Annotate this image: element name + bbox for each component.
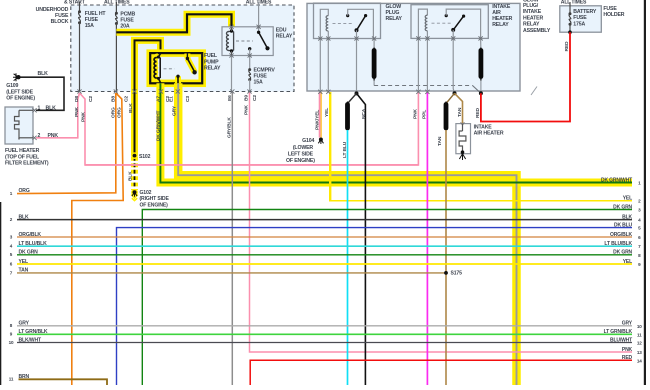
junction dot RED xyxy=(479,91,483,95)
svg-text:BLK: BLK xyxy=(19,214,29,220)
underhood fuse block (dashed box) xyxy=(71,5,294,92)
intake relay coil-switch dashed link xyxy=(432,22,452,24)
wire YEL to right row 2 xyxy=(329,200,632,202)
svg-text:OF ENGINE): OF ENGINE) xyxy=(140,202,169,208)
fuse PCMB 20A xyxy=(115,12,118,15)
wire GRY fuel pump relay output xyxy=(178,83,516,385)
svg-text:(LOWER: (LOWER xyxy=(293,145,314,151)
fusible link (TAN) xyxy=(444,105,449,129)
svg-text:C3: C3 xyxy=(185,96,191,102)
svg-text:GRY: GRY xyxy=(622,321,633,327)
intake relay coil circuit xyxy=(418,9,427,38)
wire BLK fuel heater pin1 to G109 xyxy=(21,77,65,110)
glow plug relay box xyxy=(314,3,381,38)
svg-text:GLOW: GLOW xyxy=(386,4,402,10)
svg-text:HOLDER: HOLDER xyxy=(603,12,624,18)
svg-text:ORG: ORG xyxy=(116,107,122,118)
wire TAN down to S175 and beyond xyxy=(445,130,447,385)
svg-text:DK GRN/WHT: DK GRN/WHT xyxy=(155,111,161,141)
svg-text:OF ENGINE): OF ENGINE) xyxy=(286,158,315,164)
svg-text:D8: D8 xyxy=(74,96,80,102)
wire fuel pump relay coil to S102 (BLK, thick black) xyxy=(135,40,161,155)
wire to TAN fusible link xyxy=(446,93,455,103)
wire feed to FUEL HT fuse xyxy=(79,2,81,12)
svg-text:C2: C2 xyxy=(252,95,258,101)
svg-text:15A: 15A xyxy=(85,23,94,29)
wire ORG/BLK full-width row xyxy=(17,236,632,238)
fuel pump relay common pin xyxy=(176,75,179,78)
svg-text:ALL TIMES: ALL TIMES xyxy=(104,0,130,5)
wire BLK full-width row xyxy=(17,219,632,221)
wire intake output to fusible link xyxy=(480,38,482,50)
wire PCMB fuse to EDU relay coil (thick black) xyxy=(116,14,231,32)
fuel pump relay switch contact dot xyxy=(186,57,189,60)
connector marks at assembly bottom xyxy=(318,90,322,94)
wire NCA glow common down xyxy=(357,93,366,385)
highlight fuel pump relay switch xyxy=(184,54,190,59)
svg-text:BRN: BRN xyxy=(19,374,30,380)
svg-text:PPL: PPL xyxy=(422,110,428,119)
svg-text:DK GRN: DK GRN xyxy=(19,250,39,256)
intake air heater top connector mark xyxy=(461,122,465,125)
svg-text:10: 10 xyxy=(9,340,14,345)
svg-text:PCMB: PCMB xyxy=(120,11,135,17)
svg-text:B9: B9 xyxy=(244,95,250,101)
ground below intake air heater xyxy=(459,154,465,160)
svg-text:175A: 175A xyxy=(573,21,585,27)
EDU relay coil-switch dashed link xyxy=(236,40,253,42)
svg-text:BLK: BLK xyxy=(46,105,57,111)
svg-text:S102: S102 xyxy=(139,154,151,160)
svg-text:20A: 20A xyxy=(120,24,129,30)
svg-text:DK BLU: DK BLU xyxy=(614,222,633,228)
svg-text:RED: RED xyxy=(622,355,633,361)
wire glow common to NCA junction xyxy=(356,39,358,94)
svg-text:LT BLU/BLK: LT BLU/BLK xyxy=(604,241,632,247)
svg-text:(LEFT SIDE: (LEFT SIDE xyxy=(6,89,33,95)
glow plug relay switch blade xyxy=(357,16,365,30)
svg-text:INTAKE: INTAKE xyxy=(523,9,542,15)
svg-text:DK GRN/WHT: DK GRN/WHT xyxy=(601,177,632,183)
ground G104 xyxy=(319,138,323,142)
svg-text:14: 14 xyxy=(637,358,642,363)
wire intake fusible link to red junction xyxy=(480,81,482,94)
battery fuse holder box xyxy=(560,6,602,32)
svg-text:RELAY: RELAY xyxy=(386,16,403,22)
svg-text:OF ENGINE): OF ENGINE) xyxy=(6,95,35,101)
wire LT GRN/BLK full-width row xyxy=(17,333,632,335)
svg-text:TAN: TAN xyxy=(19,268,29,274)
node S102 xyxy=(131,152,138,159)
svg-text:FUSE: FUSE xyxy=(254,74,268,80)
wire FUEL HT fuse to D8 xyxy=(79,23,81,92)
junction dot TAN xyxy=(453,91,457,95)
svg-text:BATTERY: BATTERY xyxy=(573,9,597,15)
intake air heater relay box xyxy=(411,5,488,39)
node S175 xyxy=(444,271,448,275)
svg-text:HEATER: HEATER xyxy=(523,15,543,21)
wire LT BLU down xyxy=(347,130,349,385)
svg-text:11: 11 xyxy=(637,332,642,337)
svg-text:BLOCK: BLOCK xyxy=(51,19,69,25)
svg-text:TAN: TAN xyxy=(457,107,463,117)
svg-text:HEATER: HEATER xyxy=(492,16,512,22)
intake relay switch blade xyxy=(454,16,464,29)
svg-text:E6: E6 xyxy=(227,95,233,101)
svg-text:PLUG: PLUG xyxy=(386,10,400,16)
wire intake coil pin1 to assembly bottom xyxy=(417,38,419,92)
wire glow coil pin2 to assembly bottom xyxy=(327,39,329,93)
wire feed to PCMB fuse xyxy=(115,2,117,13)
svg-text:FUEL HT: FUEL HT xyxy=(85,11,107,17)
svg-text:FUSE: FUSE xyxy=(120,17,134,23)
wire DK BLU riser to right row 5 xyxy=(117,228,633,385)
svg-text:GRY/BLK: GRY/BLK xyxy=(227,117,233,138)
fuel heater element symbol xyxy=(15,112,20,140)
fuel heater component box xyxy=(5,107,33,144)
wire GRY full-width row xyxy=(17,325,632,327)
svg-text:BLK: BLK xyxy=(128,171,134,181)
svg-text:INTAKE: INTAKE xyxy=(474,124,493,130)
fuel pump relay coil-switch dashed link xyxy=(164,68,175,70)
svg-text:BLU/WHT: BLU/WHT xyxy=(610,337,632,343)
svg-text:11: 11 xyxy=(9,377,14,382)
svg-text:PUMP: PUMP xyxy=(204,59,219,65)
fuel pump relay switch contact stub xyxy=(186,54,188,59)
svg-text:FUEL HEATER: FUEL HEATER xyxy=(5,148,40,154)
ground G102 xyxy=(131,189,138,196)
svg-text:LT BLU/BLK: LT BLU/BLK xyxy=(19,241,48,247)
svg-text:YEL: YEL xyxy=(19,259,28,265)
EDU relay switch pivot dot xyxy=(257,31,260,34)
wire battery fuse to holder bottom xyxy=(569,24,571,32)
wire DK GRN/WHT fuel pump relay coil control xyxy=(160,83,632,182)
svg-text:PNK: PNK xyxy=(413,109,419,119)
wire fusible link to glow plug dashed bus xyxy=(373,81,375,86)
intake air heater resistor box xyxy=(456,124,471,154)
svg-text:LT GRN/BLK: LT GRN/BLK xyxy=(604,329,633,335)
svg-text:G102: G102 xyxy=(140,190,152,196)
intake relay blade pivot dot xyxy=(462,15,465,18)
svg-text:DK GRN: DK GRN xyxy=(613,250,632,256)
fuel heater pin 1 connector xyxy=(32,108,36,112)
glow plug/intake heater relay assembly box xyxy=(307,3,520,91)
wire TAN to intake air heater xyxy=(455,93,463,123)
wire glow output to fusible link xyxy=(373,39,375,51)
EDU relay coil xyxy=(227,32,230,51)
fuel heater pin 2 connector xyxy=(32,136,36,140)
svg-text:RELAY: RELAY xyxy=(492,22,509,28)
svg-text:G109: G109 xyxy=(6,83,18,89)
svg-text:A7: A7 xyxy=(155,96,161,102)
svg-text:NCA: NCA xyxy=(361,108,367,119)
svg-text:BLK: BLK xyxy=(622,214,632,220)
EDU relay switch blade xyxy=(259,32,267,47)
svg-text:PNK: PNK xyxy=(74,107,80,117)
svg-text:E1: E1 xyxy=(169,96,175,102)
intake relay common pin xyxy=(452,30,454,39)
intake relay switch contact xyxy=(445,14,448,17)
wire ORG B8 branch down left side xyxy=(72,93,123,385)
wire DK GRN riser to right row 3 xyxy=(142,210,632,386)
wire YEL glow coil down xyxy=(329,92,331,201)
wire EDU output to ECMPRV fuse xyxy=(249,56,251,70)
svg-text:TAN: TAN xyxy=(437,136,443,146)
connector marks at intake relay box bottom xyxy=(416,36,420,40)
wire RED intake link to battery fuse xyxy=(481,32,570,121)
wire to LT BLU fusible link xyxy=(348,93,357,103)
svg-text:10: 10 xyxy=(637,324,642,329)
junction dot battery fuse output xyxy=(568,30,572,34)
svg-text:15A: 15A xyxy=(254,80,263,86)
svg-text:FUEL: FUEL xyxy=(204,53,218,59)
wire ORG B8 to left row 1 xyxy=(17,93,116,194)
wire PCMB fuse to B8 xyxy=(115,24,117,92)
svg-text:RELAY: RELAY xyxy=(204,65,221,71)
fuse FUEL HT 15A xyxy=(78,10,81,13)
connector marks at EDU relay box xyxy=(229,25,233,29)
svg-text:RELAY: RELAY xyxy=(276,34,293,40)
svg-text:ORG: ORG xyxy=(110,107,116,118)
svg-text:YEL: YEL xyxy=(324,108,330,117)
fuel pump relay coil xyxy=(154,58,157,79)
fusible link (LT BLU) xyxy=(345,105,350,129)
wire PNK D8 branch to intake relay coil (long horizontal) xyxy=(80,92,419,165)
svg-text:EDU: EDU xyxy=(276,27,287,33)
glow plug relay coil circuit xyxy=(320,9,328,38)
wire DK GRN full-width row xyxy=(17,254,632,256)
wire PNK/YEL glow coil to G104 xyxy=(319,92,321,138)
svg-text:S175: S175 xyxy=(451,271,463,277)
glow plug relay blade pivot dot xyxy=(364,14,367,17)
svg-text:RED: RED xyxy=(564,41,570,51)
intake air heater element xyxy=(462,124,464,131)
highlight GRY wire path (yellow) xyxy=(178,83,516,385)
svg-text:LT BLU: LT BLU xyxy=(342,141,348,158)
svg-text:RELAY: RELAY xyxy=(523,22,540,28)
svg-text:INTAKE: INTAKE xyxy=(492,4,511,10)
highlight relay coil ground path (yellow) xyxy=(135,40,161,155)
wire PPL intake coil down xyxy=(426,92,428,385)
svg-text:FILTER ELEMENT): FILTER ELEMENT) xyxy=(5,160,49,166)
wire ECMPRV fuse to B9 xyxy=(249,80,251,92)
wire intake common to tan junction xyxy=(453,38,454,93)
svg-text:C2: C2 xyxy=(124,96,130,102)
svg-text:FUSE: FUSE xyxy=(85,17,99,23)
svg-text:GRY: GRY xyxy=(19,321,30,327)
svg-text:LT GRN/BLK: LT GRN/BLK xyxy=(19,329,48,335)
svg-text:ASSEMBLY: ASSEMBLY xyxy=(523,28,551,34)
svg-text:YEL: YEL xyxy=(623,259,632,265)
svg-text:ALL TIMES: ALL TIMES xyxy=(561,0,587,5)
wire glow coil pin1 to assembly bottom xyxy=(319,39,321,93)
svg-text:ORG/BLK: ORG/BLK xyxy=(610,232,633,238)
highlight fuel pump relay box (yellow) xyxy=(150,53,202,83)
svg-text:PNK: PNK xyxy=(622,347,633,353)
svg-text:AIR HEATER: AIR HEATER xyxy=(474,131,504,137)
svg-text:1: 1 xyxy=(38,105,41,111)
wire PNK re-stroke over highlight band xyxy=(85,164,418,166)
svg-text:PNK: PNK xyxy=(81,112,87,122)
highlight fuel pump relay coil xyxy=(155,57,158,80)
svg-text:PNK: PNK xyxy=(244,105,250,115)
left page border (partial) xyxy=(0,202,1,385)
highlight DK GRN/WHT wire path (yellow) xyxy=(160,83,632,182)
dashed bus diagonal to red junction xyxy=(473,86,481,94)
glow plug relay common pin xyxy=(356,30,358,38)
wire EDU coil to E6 xyxy=(231,56,233,92)
wire TAN left row 7 to S175 xyxy=(17,272,446,274)
svg-text:BLK/WHT: BLK/WHT xyxy=(19,337,42,343)
svg-text:13: 13 xyxy=(637,350,642,355)
fuel pump relay box xyxy=(150,53,202,83)
connector marks at fuse block bottom xyxy=(77,89,81,93)
svg-text:LEFT SIDE: LEFT SIDE xyxy=(288,151,314,157)
svg-text:FUSE: FUSE xyxy=(55,13,69,19)
wire intake coil pin2 to assembly bottom xyxy=(426,38,428,92)
wire BLK S102 to G102 (dashed) xyxy=(134,157,136,190)
intake air heater bottom junction dot xyxy=(461,150,465,154)
right page border xyxy=(644,0,646,385)
wire LT BLU/BLK full-width row xyxy=(17,245,632,247)
svg-text:BLK: BLK xyxy=(38,71,49,77)
svg-text:(RIGHT SIDE: (RIGHT SIDE xyxy=(140,196,170,202)
junction dot NCA/LT BLU xyxy=(355,91,359,95)
svg-text:FUSE: FUSE xyxy=(603,6,617,12)
wire PNK from B9 to right row 13 xyxy=(250,92,633,353)
connector marks at glow relay box bottom xyxy=(318,36,322,40)
svg-text:DK GRN: DK GRN xyxy=(613,204,632,210)
svg-text:G104: G104 xyxy=(302,138,314,144)
fusible link (intake heater relay output) xyxy=(478,51,483,77)
svg-text:GRY: GRY xyxy=(171,105,177,116)
svg-text:ORG: ORG xyxy=(19,188,30,194)
svg-text:PNK/YEL: PNK/YEL xyxy=(315,110,321,130)
highlight PCMB feed path (yellow) xyxy=(116,14,231,32)
svg-text:C2: C2 xyxy=(88,96,94,102)
wire PNK D8 to fuel heater pin 2 xyxy=(36,93,80,138)
ground G109 xyxy=(16,75,20,79)
wire BLK/WHT full-width row xyxy=(17,342,632,344)
fuse ECMPRV 15A xyxy=(248,68,251,71)
svg-text:PLUG/: PLUG/ xyxy=(523,3,539,9)
svg-text:& START: & START xyxy=(64,0,86,5)
wire YEL full-width row xyxy=(17,263,632,265)
fusible link (glow plug relay output) xyxy=(372,51,377,77)
svg-text:12: 12 xyxy=(637,341,642,346)
svg-text:(TOP OF FUEL: (TOP OF FUEL xyxy=(5,154,40,160)
glow plug relay switch contact xyxy=(346,14,349,17)
svg-text:RED: RED xyxy=(475,108,481,118)
wire feed to battery fuse xyxy=(569,2,571,14)
svg-text:BLK: BLK xyxy=(128,103,134,113)
EDU relay output pin xyxy=(248,47,251,50)
svg-text:AIR: AIR xyxy=(492,10,501,16)
EDU relay switch feed from ALL TIMES xyxy=(258,2,260,32)
leader mark near assembly corner xyxy=(531,87,537,96)
svg-text:ORG/BLK: ORG/BLK xyxy=(19,232,42,238)
glow plug relay coil-switch dashed link xyxy=(333,22,354,24)
svg-text:FUSE: FUSE xyxy=(573,15,587,21)
wire GRY/BLK from E6 down xyxy=(231,92,233,386)
svg-text:YEL: YEL xyxy=(623,196,632,202)
svg-text:UNDERHOOD: UNDERHOOD xyxy=(36,7,69,13)
wire BRN left row 11 xyxy=(19,379,108,385)
wire RED lower right to row 14 xyxy=(250,360,632,385)
highlight S102 to G102 (yellow, dashed) xyxy=(131,157,138,190)
glow plug feed dashed bus xyxy=(374,85,472,87)
fuse BATTERY 175A xyxy=(569,12,572,15)
fuel pump relay switch blade xyxy=(187,59,194,72)
svg-text:ECMPRV: ECMPRV xyxy=(254,68,276,74)
EDU relay box xyxy=(222,27,273,56)
svg-text:B8: B8 xyxy=(110,96,116,102)
